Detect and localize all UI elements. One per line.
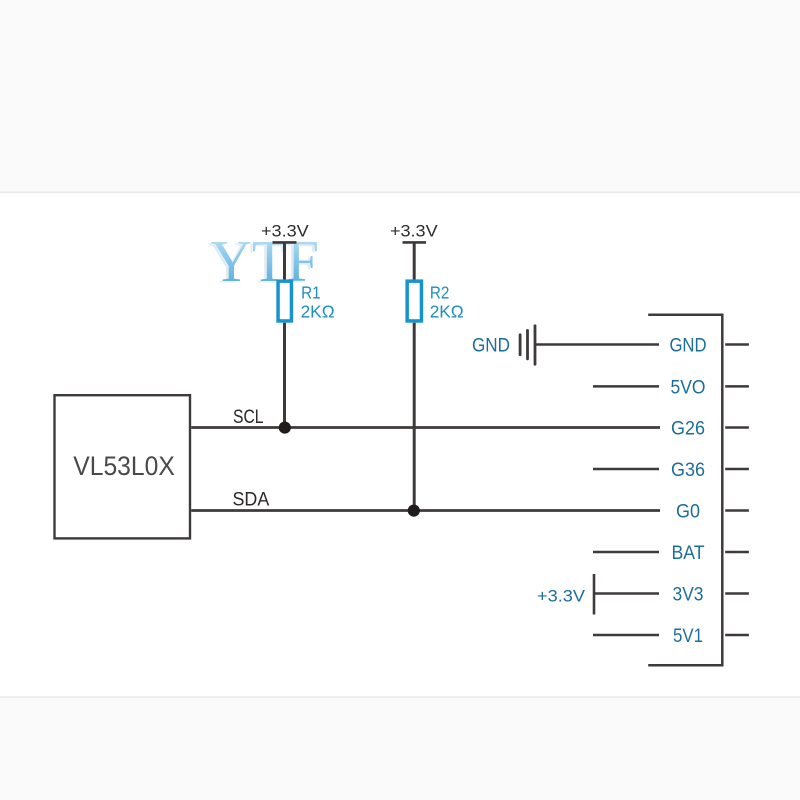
wire +3.3V to R1 bbox=[283, 242, 286, 281]
IC VL53L0X box bbox=[55, 395, 191, 538]
svg-text:2KΩ: 2KΩ bbox=[430, 302, 464, 322]
power rail bar (left +3.3V) bbox=[273, 241, 297, 244]
wire R2 to SDA junction bbox=[413, 323, 416, 511]
svg-text:SCL: SCL bbox=[233, 406, 264, 428]
pin 5VO lead bbox=[593, 385, 659, 388]
svg-text:R2: R2 bbox=[430, 282, 450, 302]
pin BAT lead bbox=[593, 551, 659, 554]
svg-text:3V3: 3V3 bbox=[673, 584, 704, 605]
wire ground to GND pin bbox=[535, 343, 659, 346]
bottom margin band bbox=[0, 698, 800, 800]
pin G36 lead bbox=[593, 468, 659, 471]
pin G0 right stub bbox=[725, 509, 749, 512]
resistor R1 bbox=[278, 281, 291, 321]
pin BAT right stub bbox=[725, 551, 749, 554]
connector header outline bbox=[648, 315, 722, 666]
svg-text:5VO: 5VO bbox=[671, 377, 706, 398]
pin G26 right stub bbox=[725, 426, 749, 429]
pin 5VO right stub bbox=[725, 385, 749, 388]
svg-text:SDA: SDA bbox=[233, 488, 270, 510]
pin G36 right stub bbox=[725, 468, 749, 471]
svg-text:GND: GND bbox=[472, 336, 510, 357]
svg-text:+3.3V: +3.3V bbox=[390, 222, 438, 241]
svg-text:R1: R1 bbox=[301, 282, 321, 302]
svg-text:G26: G26 bbox=[671, 418, 705, 439]
wire SDA net (box to G0 pin) bbox=[191, 509, 660, 512]
pin 3V3 right stub bbox=[725, 592, 749, 595]
wire SCL net (box to G26 pin) bbox=[191, 426, 660, 429]
junction dot SCL/R1 bbox=[279, 422, 291, 434]
wire +3.3V to R2 bbox=[413, 242, 416, 281]
pin GND right stub bbox=[725, 343, 749, 346]
svg-text:VL53L0X: VL53L0X bbox=[73, 451, 175, 481]
ground symbol bbox=[520, 326, 535, 364]
svg-text:G36: G36 bbox=[671, 460, 705, 481]
pin 3V3 lead bbox=[594, 592, 659, 595]
svg-text:2KΩ: 2KΩ bbox=[301, 302, 335, 322]
svg-text:BAT: BAT bbox=[672, 543, 705, 564]
svg-text:+3.3V: +3.3V bbox=[537, 586, 586, 605]
svg-text:+3.3V: +3.3V bbox=[261, 222, 310, 241]
junction dot SDA/R2 bbox=[408, 505, 420, 517]
svg-text:G0: G0 bbox=[676, 501, 700, 522]
pin 5V1 lead bbox=[593, 634, 659, 637]
svg-text:5V1: 5V1 bbox=[673, 626, 703, 647]
top margin band bbox=[0, 0, 800, 192]
pin 5V1 right stub bbox=[725, 634, 749, 637]
power rail bar (right +3.3V) bbox=[403, 241, 427, 244]
power rail bar at 3V3 bbox=[593, 574, 596, 615]
svg-text:GND: GND bbox=[669, 335, 706, 356]
wire R1 to SCL junction bbox=[283, 323, 286, 428]
resistor R2 bbox=[407, 281, 421, 321]
